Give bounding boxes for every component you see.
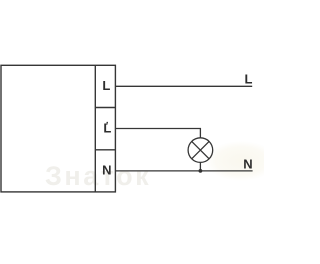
terminal block left edge bbox=[94, 65, 96, 192]
lamp bbox=[188, 138, 213, 163]
svg-text:L: L bbox=[245, 72, 253, 87]
device body bbox=[1, 65, 115, 192]
svg-text:N: N bbox=[243, 157, 252, 172]
wire L bbox=[115, 85, 252, 87]
wire L' bbox=[115, 129, 200, 139]
terminal label L' bbox=[103, 121, 111, 136]
wire lamp to N bbox=[199, 162, 201, 171]
terminal divider L'/N bbox=[95, 149, 115, 151]
svg-text:N: N bbox=[102, 163, 111, 178]
svg-text:Знаток: Знаток bbox=[45, 161, 151, 191]
terminal divider L/L' bbox=[95, 107, 115, 109]
wire N bbox=[115, 170, 252, 172]
svg-text:L: L bbox=[102, 78, 110, 93]
junction bbox=[199, 169, 203, 173]
